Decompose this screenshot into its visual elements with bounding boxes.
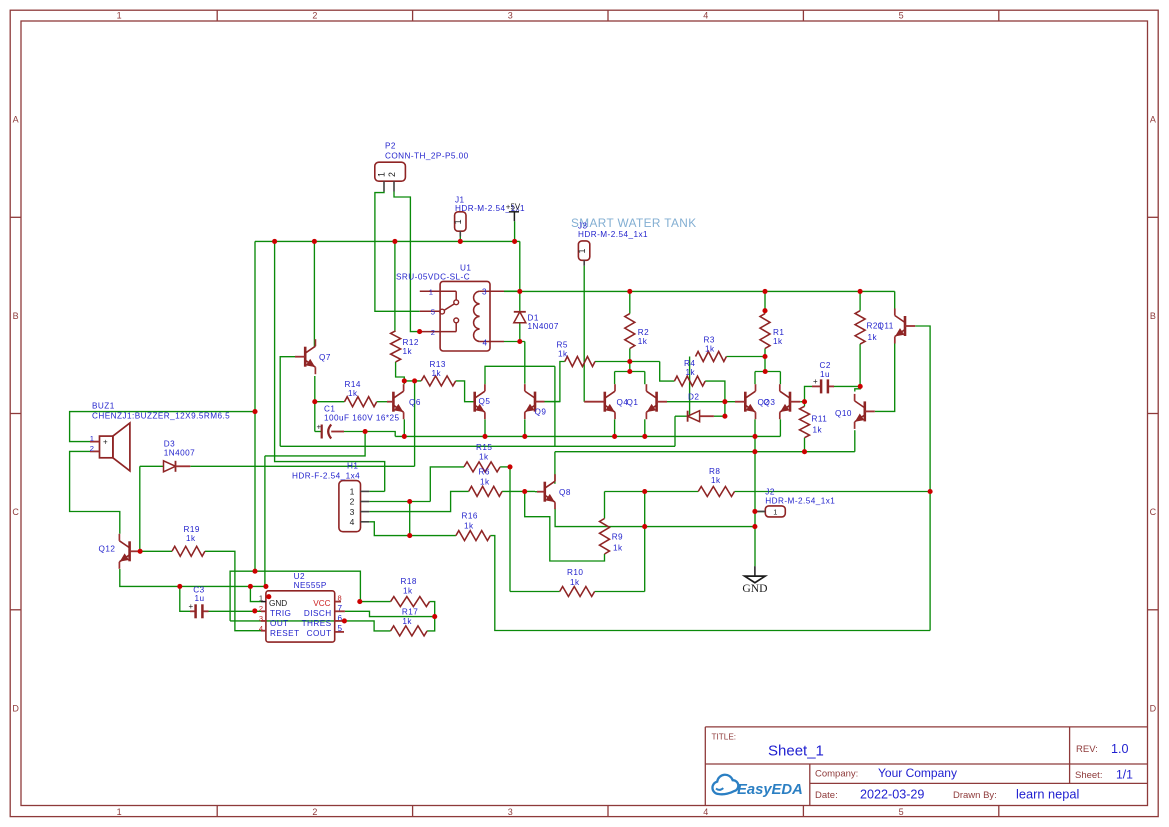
resistor R11 bbox=[800, 406, 810, 437]
svg-text:1k: 1k bbox=[480, 478, 490, 487]
wire bases line Q4Q1 to Q2Q3 bbox=[667, 401, 735, 403]
wire Q12 emitter to GND line bbox=[120, 569, 266, 586]
transistor pair Q4 Q1 bbox=[603, 392, 606, 412]
wire bus down to R12 bbox=[394, 241, 396, 330]
wire OUT THRES line bbox=[230, 620, 344, 622]
resistor R1 bbox=[760, 314, 770, 349]
junction at 930.1,491.5 bbox=[928, 489, 933, 494]
svg-text:2: 2 bbox=[312, 807, 317, 817]
junction at 344.4,620.9 bbox=[342, 618, 347, 623]
svg-text:1k: 1k bbox=[613, 544, 623, 553]
svg-text:R10: R10 bbox=[567, 568, 583, 577]
svg-text:1k: 1k bbox=[773, 337, 783, 346]
wire L1 Q7 base to D2 bbox=[280, 445, 675, 447]
wire relay pin4 line bbox=[504, 341, 525, 343]
svg-text:NE555P: NE555P bbox=[294, 581, 327, 590]
svg-text:Drawn By:: Drawn By: bbox=[953, 790, 997, 801]
wire bus corner down to relay pin3 bbox=[519, 241, 521, 291]
junction at 804.5,451.7 bbox=[802, 449, 807, 454]
junction at 765,356.5 bbox=[762, 354, 767, 359]
svg-text:D: D bbox=[12, 703, 19, 713]
wire Q7 emitter column C1 left bbox=[314, 376, 316, 432]
wire R11 column bbox=[804, 402, 806, 407]
svg-text:1: 1 bbox=[773, 507, 777, 516]
svg-text:4: 4 bbox=[703, 807, 708, 817]
svg-text:R2: R2 bbox=[638, 328, 649, 337]
svg-text:Company:: Company: bbox=[815, 769, 858, 780]
resistor R14 bbox=[345, 397, 377, 407]
junction at 434.7,616.6 bbox=[432, 614, 437, 619]
wire C1 minus branch down bbox=[265, 432, 365, 456]
svg-text:1: 1 bbox=[117, 11, 122, 21]
svg-text:R15: R15 bbox=[476, 443, 492, 452]
junction at 409.7,535.6 bbox=[407, 533, 412, 538]
svg-text:Sheet_1: Sheet_1 bbox=[768, 743, 824, 760]
junction at 644.8,436.4 bbox=[642, 434, 647, 439]
wire Q10 emitter riser bbox=[854, 430, 856, 452]
junction at 754.9,511.4 bbox=[752, 509, 757, 514]
wire +5V bus bbox=[255, 240, 520, 242]
svg-text:R1: R1 bbox=[773, 328, 784, 337]
junction at 755,436.4 bbox=[752, 434, 757, 439]
resistor R15 bbox=[464, 462, 500, 472]
svg-text:Your Company: Your Company bbox=[878, 766, 957, 780]
svg-text:TRIG: TRIG bbox=[270, 609, 291, 618]
junction at 724.9,416.2 bbox=[722, 414, 727, 419]
wire D3 left drop to Q12 base bbox=[139, 466, 141, 551]
junction at 629.8,291.4 bbox=[627, 289, 632, 294]
wire C1 branch to U2 GND net vertical bbox=[264, 456, 266, 587]
capacitor C1 bbox=[321, 425, 323, 439]
junction at 404.3,436.4 bbox=[402, 434, 407, 439]
wire Q6 collector to R13 bbox=[404, 380, 421, 382]
resistor R2 bbox=[625, 314, 635, 349]
svg-text:1k: 1k bbox=[402, 617, 412, 626]
svg-text:4: 4 bbox=[259, 624, 263, 633]
svg-text:B: B bbox=[13, 311, 19, 321]
connector J1 bbox=[455, 212, 466, 231]
wire R2 column bbox=[629, 291, 631, 313]
junction at 255,571.2 bbox=[252, 569, 257, 574]
svg-text:C: C bbox=[12, 507, 19, 517]
wire Q5 collector line bbox=[485, 366, 555, 384]
svg-text:A: A bbox=[13, 115, 19, 125]
wire R9 top riser bbox=[604, 492, 606, 519]
wire Q2Q3 right base to R11 top bbox=[800, 401, 804, 403]
wire R14 line bbox=[315, 401, 345, 403]
header H1 bbox=[339, 481, 361, 532]
wire R19 right to RESET bbox=[205, 551, 261, 630]
svg-text:Q8: Q8 bbox=[559, 488, 571, 497]
svg-text:Q1: Q1 bbox=[627, 398, 639, 407]
wire long left vertical from bus bbox=[254, 241, 256, 571]
junction at 629.8,361.5 bbox=[627, 359, 632, 364]
svg-text:+: + bbox=[813, 377, 818, 386]
wire D3 line bbox=[140, 465, 163, 467]
svg-text:1: 1 bbox=[577, 248, 587, 253]
svg-text:1k: 1k bbox=[868, 333, 878, 342]
svg-text:1: 1 bbox=[117, 807, 122, 817]
wire H1 pin1 link bbox=[369, 490, 384, 492]
wire R15 left riser bbox=[430, 467, 464, 502]
wire D3 right riser to R13 dot bbox=[414, 381, 416, 466]
junction at 765,291.4 bbox=[762, 289, 767, 294]
junction at 519.8,341.5 bbox=[517, 339, 522, 344]
wire C2 right to Q10 collector dot bbox=[833, 385, 860, 387]
svg-text:R11: R11 bbox=[812, 415, 828, 424]
wire THRES to R17 left bbox=[344, 621, 390, 631]
junction at 419.6,331.6 bbox=[417, 329, 422, 334]
svg-text:R3: R3 bbox=[704, 336, 715, 345]
wire R8 line bbox=[605, 491, 699, 493]
junction at 314.8,401.7 bbox=[312, 399, 317, 404]
wire Q11 base down right column bbox=[915, 326, 930, 631]
svg-text:RESET: RESET bbox=[270, 629, 300, 638]
svg-text:Q6: Q6 bbox=[409, 398, 421, 407]
junction at 265.9,586.4 bbox=[263, 584, 268, 589]
ground GND bbox=[754, 566, 756, 576]
wire BUZ1 top link bbox=[70, 412, 255, 442]
svg-text:2: 2 bbox=[350, 497, 355, 507]
svg-text:C2: C2 bbox=[820, 361, 831, 370]
wire Q8 collector riser bbox=[554, 452, 556, 484]
wire R16 right drop to bottom rail bbox=[490, 536, 930, 631]
wire R5 left corner down to Q9 base bbox=[545, 362, 565, 402]
svg-text:VCC: VCC bbox=[313, 599, 330, 608]
transistor Q8 bbox=[543, 482, 546, 502]
svg-text:R5: R5 bbox=[557, 341, 568, 350]
svg-text:D3: D3 bbox=[164, 440, 175, 449]
svg-text:+: + bbox=[317, 423, 322, 432]
svg-text:4: 4 bbox=[703, 11, 708, 21]
svg-text:SMART WATER TANK: SMART WATER TANK bbox=[571, 216, 696, 230]
transistor Q5 bbox=[473, 392, 476, 412]
resistor R3 bbox=[696, 352, 727, 362]
svg-text:Q5: Q5 bbox=[479, 397, 491, 406]
resistor R21 and transistor Q11 labels overlapped bbox=[855, 311, 865, 344]
wire BUZ1 pin2 to Q12 collector bbox=[70, 451, 120, 533]
svg-text:Date:: Date: bbox=[815, 790, 838, 801]
svg-text:2022-03-29: 2022-03-29 bbox=[860, 788, 924, 802]
svg-text:100uF 160V 16*25: 100uF 160V 16*25 bbox=[324, 414, 400, 423]
svg-text:1k: 1k bbox=[813, 426, 823, 435]
junction at 254.8,610.9 bbox=[252, 608, 257, 613]
svg-text:A: A bbox=[1150, 115, 1156, 125]
transistor Q6 bbox=[392, 392, 395, 412]
junction at 754.9,451.7 bbox=[752, 449, 757, 454]
resistor R18 bbox=[391, 597, 430, 607]
svg-text:learn nepal: learn nepal bbox=[1016, 787, 1079, 802]
svg-text:1.0: 1.0 bbox=[1111, 742, 1129, 756]
wire pin7 DISCH jog to R17R18 junction bbox=[345, 611, 435, 616]
junction at 614.6,436.4 bbox=[612, 434, 617, 439]
wire bus to H1 pin1 vertical bbox=[275, 241, 385, 491]
junction at 394.9,241.4 bbox=[392, 239, 397, 244]
wire Q10 collector jog bbox=[855, 386, 860, 391]
svg-text:R18: R18 bbox=[401, 577, 417, 586]
wire VCC line bbox=[255, 571, 360, 601]
junction at 268.8,596.7 bbox=[266, 594, 271, 599]
junction at 860.1,291.4 bbox=[858, 289, 863, 294]
svg-text:1k: 1k bbox=[464, 522, 474, 531]
wire bridge Q2 Q3 bbox=[755, 371, 780, 373]
connector J2 bbox=[765, 506, 785, 517]
wire Q2Q3 collector legs bbox=[754, 372, 756, 385]
svg-text:CONN-TH_2P-P5.00: CONN-TH_2P-P5.00 bbox=[385, 152, 469, 161]
svg-text:GND: GND bbox=[269, 599, 287, 608]
resistor R16 bbox=[456, 531, 490, 541]
svg-text:R8: R8 bbox=[709, 467, 720, 476]
svg-text:U2: U2 bbox=[294, 572, 305, 581]
wire R21 column bbox=[859, 291, 861, 310]
wire rail corner to Q11 collector bbox=[894, 291, 896, 308]
wire R13 right corner to Q5 base bbox=[456, 381, 475, 402]
junction at 414.6,380.9 bbox=[412, 378, 417, 383]
junction at 629.8,371.5 bbox=[627, 369, 632, 374]
transistor Q11 (mirrored) bbox=[904, 316, 907, 336]
svg-text:Q11: Q11 bbox=[878, 322, 894, 331]
wire J1 stub to bus bbox=[459, 237, 461, 242]
junction at 314.4,241.4 bbox=[312, 239, 317, 244]
wire OUT left link to VCC line bbox=[230, 571, 255, 621]
svg-text:R14: R14 bbox=[345, 380, 361, 389]
wire pin4 down to Q9 collector bbox=[524, 342, 526, 384]
buzzer BUZ1 bbox=[100, 436, 113, 458]
wire bus to Q7 collector bbox=[313, 241, 315, 347]
junction at 519.8,291.4 bbox=[517, 289, 522, 294]
svg-text:P2: P2 bbox=[385, 142, 396, 151]
wire Q5 collector drop to L1 bbox=[554, 366, 556, 446]
resistor R12 bbox=[391, 331, 401, 362]
svg-text:1u: 1u bbox=[195, 594, 205, 603]
svg-text:1: 1 bbox=[453, 219, 463, 224]
svg-text:+5V: +5V bbox=[506, 202, 521, 211]
svg-text:BUZ1: BUZ1 bbox=[92, 402, 115, 411]
wire D2 left riser bbox=[674, 416, 676, 446]
svg-text:R4: R4 bbox=[684, 359, 695, 368]
svg-text:1k: 1k bbox=[403, 347, 413, 356]
resistor R19 bbox=[172, 546, 205, 556]
wire Q13 left emitter column to GND bbox=[754, 436, 756, 566]
svg-text:R13: R13 bbox=[430, 360, 446, 369]
svg-text:HDR-F-2.54_1x4: HDR-F-2.54_1x4 bbox=[292, 471, 360, 480]
wire main rail y291 bbox=[520, 290, 895, 292]
wire emitter stubs to rail bbox=[403, 419, 405, 436]
svg-text:1: 1 bbox=[350, 487, 355, 497]
svg-text:B: B bbox=[1150, 311, 1156, 321]
svg-text:3: 3 bbox=[482, 288, 487, 297]
wire GND line jog to U2 pin1 bbox=[250, 586, 261, 601]
wire H1 pin2 line bbox=[369, 501, 430, 503]
junction at 724.9,401.7 bbox=[722, 399, 727, 404]
wire bridge Q4 Q1 bbox=[615, 371, 645, 373]
IC U2 NE555P bbox=[266, 591, 335, 642]
wire H1 pin3 line bbox=[369, 491, 468, 511]
svg-text:1k: 1k bbox=[186, 534, 196, 543]
svg-text:1k: 1k bbox=[432, 369, 442, 378]
svg-text:EasyEDA: EasyEDA bbox=[737, 782, 803, 798]
svg-text:HDR-M-2.54_1x1: HDR-M-2.54_1x1 bbox=[578, 230, 648, 239]
svg-text:1k: 1k bbox=[479, 453, 489, 462]
diode D3 bbox=[164, 461, 176, 472]
wire C3 left riser bbox=[180, 586, 190, 611]
junction at 804.5,401.7 bbox=[802, 399, 807, 404]
svg-text:Q10: Q10 bbox=[835, 409, 852, 418]
wire Q6 collector terminal bbox=[403, 381, 405, 384]
wire R10 right riser bbox=[644, 492, 646, 592]
wire Q11 emitter to Q10 base bbox=[875, 344, 895, 412]
svg-text:GND: GND bbox=[742, 582, 767, 595]
wire R18 right corner down bbox=[427, 602, 435, 631]
wire R15 right to R10 column bbox=[500, 466, 510, 468]
svg-text:5: 5 bbox=[431, 308, 435, 317]
junction at 250.4,586.4 bbox=[248, 584, 253, 589]
wire J2 stub bbox=[755, 511, 765, 513]
svg-text:Q12: Q12 bbox=[99, 545, 116, 554]
wire R10 line bbox=[510, 591, 560, 593]
svg-text:+: + bbox=[189, 602, 194, 611]
svg-text:1: 1 bbox=[377, 172, 387, 177]
wire Q8 base stub bbox=[535, 491, 537, 493]
resistor R4 bbox=[674, 376, 705, 386]
svg-text:3: 3 bbox=[508, 807, 513, 817]
wire R6 right to Q8 base bbox=[502, 490, 535, 492]
svg-text:2: 2 bbox=[431, 328, 435, 337]
svg-text:R19: R19 bbox=[184, 525, 200, 534]
wire Q9 base stub bbox=[545, 401, 560, 403]
svg-text:3: 3 bbox=[350, 507, 355, 517]
svg-text:2: 2 bbox=[387, 172, 397, 177]
relay U1 bbox=[440, 281, 490, 351]
junction at 765.2,371.5 bbox=[763, 369, 768, 374]
svg-text:OUT: OUT bbox=[270, 619, 289, 628]
svg-text:J2: J2 bbox=[765, 488, 775, 497]
wire emitter rail left jog to C1 bbox=[344, 432, 395, 437]
wire C3 right to TRIG bbox=[208, 610, 262, 612]
svg-text:C1: C1 bbox=[324, 405, 335, 414]
junction at 274.6,241.4 bbox=[272, 239, 277, 244]
junction at 255,411.6 bbox=[252, 409, 257, 414]
svg-text:4: 4 bbox=[350, 517, 355, 527]
junction at 485,436.4 bbox=[482, 434, 487, 439]
capacitor C3 bbox=[194, 604, 197, 618]
svg-text:HDR-M-2.54_1x1: HDR-M-2.54_1x1 bbox=[765, 497, 835, 506]
svg-text:H1: H1 bbox=[347, 462, 358, 471]
wire R4 left corner bbox=[660, 362, 675, 382]
resistor R8 bbox=[698, 487, 734, 497]
svg-text:1k: 1k bbox=[570, 578, 580, 587]
junction at 644.7,526.6 bbox=[642, 524, 647, 529]
svg-text:3: 3 bbox=[508, 11, 513, 21]
transistor pair Q2 Q3 bbox=[744, 392, 747, 412]
junction at 404.3,380.9 bbox=[402, 378, 407, 383]
junction at 140.1,551.3 bbox=[138, 549, 143, 554]
junction at 524.7,491.5 bbox=[522, 489, 527, 494]
resistor R10 bbox=[560, 587, 595, 597]
junction at 365.1,431.5 bbox=[363, 429, 368, 434]
wire R1 column bbox=[764, 291, 766, 313]
title block bbox=[705, 727, 1147, 806]
svg-text:5: 5 bbox=[899, 11, 904, 21]
svg-text:1k: 1k bbox=[686, 368, 696, 377]
wire Q8 emitter line bbox=[555, 509, 755, 527]
resistor R6 bbox=[469, 486, 502, 496]
resistor R17 bbox=[391, 626, 428, 636]
diode D1 bbox=[514, 311, 526, 313]
wire pin2 branch down bbox=[409, 502, 411, 536]
wire R3 line right to R1 bbox=[726, 356, 765, 358]
diode D2 bbox=[687, 411, 689, 422]
wire L2 Q8 collector line bbox=[555, 451, 855, 453]
transistor Q12 (mirrored) bbox=[128, 541, 131, 561]
connector P2 bbox=[375, 162, 406, 181]
wire R4 right corner down bbox=[705, 381, 725, 415]
svg-text:REV:: REV: bbox=[1076, 744, 1098, 755]
svg-text:R16: R16 bbox=[462, 512, 478, 521]
junction at 860.2,386.4 bbox=[858, 384, 863, 389]
wire H1 pin4 to R16 bbox=[369, 522, 456, 536]
svg-text:THRES: THRES bbox=[302, 619, 332, 628]
svg-text:1: 1 bbox=[429, 287, 433, 296]
svg-text:1: 1 bbox=[90, 434, 94, 443]
svg-text:1k: 1k bbox=[348, 389, 358, 398]
junction at 179.8,586.4 bbox=[177, 584, 182, 589]
junction at 409.7,501.5 bbox=[407, 499, 412, 504]
junction at 765,310.7 bbox=[762, 308, 767, 313]
svg-text:DISCH: DISCH bbox=[304, 609, 332, 618]
wire C2 left corner to base bbox=[805, 386, 813, 401]
connector J3 bbox=[578, 241, 589, 260]
svg-text:1k: 1k bbox=[711, 476, 721, 485]
svg-text:Q3: Q3 bbox=[764, 398, 776, 407]
svg-text:1k: 1k bbox=[403, 587, 413, 596]
svg-text:SRU-05VDC-SL-C: SRU-05VDC-SL-C bbox=[396, 272, 470, 281]
wire R5 line to R2 to R4 corner bbox=[595, 361, 660, 363]
svg-text:Sheet:: Sheet: bbox=[1075, 770, 1102, 781]
wire +5V symbol stub to bus bbox=[514, 221, 516, 241]
svg-text:1u: 1u bbox=[820, 370, 830, 379]
EasyEDA logo bbox=[712, 775, 802, 798]
resistor R13 bbox=[421, 376, 456, 386]
svg-text:1N4007: 1N4007 bbox=[164, 449, 195, 458]
svg-text:Q9: Q9 bbox=[535, 408, 547, 417]
svg-text:1k: 1k bbox=[638, 337, 648, 346]
wire L1 left up to Q7 base bbox=[280, 357, 295, 447]
wire Q4Q1 collector legs bbox=[614, 372, 616, 385]
svg-text:4: 4 bbox=[483, 338, 488, 347]
junction at 644.7,491.5 bbox=[642, 489, 647, 494]
wire R3 left down to D2 bbox=[689, 357, 691, 416]
wire P2 pin2 to relay pin2 bbox=[394, 192, 420, 332]
resistor R9 bbox=[600, 519, 610, 555]
wire P2 pin1 to relay pin5 bbox=[375, 192, 420, 312]
svg-text:D: D bbox=[1150, 703, 1157, 713]
svg-text:R12: R12 bbox=[403, 338, 419, 347]
svg-text:1k: 1k bbox=[558, 350, 568, 359]
svg-text:5: 5 bbox=[899, 807, 904, 817]
junction at 754.9,526.6 bbox=[752, 524, 757, 529]
wire R9 bottom loop to Q8 base node bbox=[525, 492, 605, 562]
resistor R5 bbox=[565, 357, 595, 367]
svg-text:2: 2 bbox=[312, 11, 317, 21]
transistor Q10 (mirrored) bbox=[863, 401, 866, 421]
svg-text:R17: R17 bbox=[402, 608, 418, 617]
svg-text:R6: R6 bbox=[479, 468, 490, 477]
wire D1 column bbox=[519, 291, 521, 311]
transistor Q7 bbox=[304, 347, 307, 367]
junction at 514.6,241.4 bbox=[512, 239, 517, 244]
wire D2 right to bases dot bbox=[714, 415, 725, 417]
